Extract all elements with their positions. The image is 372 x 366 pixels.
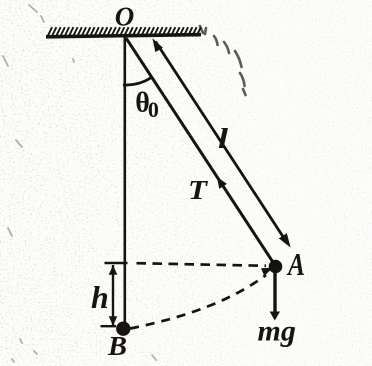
tension arrowhead T on string xyxy=(217,177,227,189)
dashed horizontal level line to A xyxy=(137,263,267,266)
bob position A dot xyxy=(269,260,283,274)
svg-text:O: O xyxy=(115,2,135,32)
weight arrowhead xyxy=(270,312,280,321)
scan smudges top-left and edges xyxy=(3,5,156,362)
svg-text:mg: mg xyxy=(258,315,296,348)
ceiling line xyxy=(46,35,201,37)
svg-text:A: A xyxy=(286,246,305,282)
length double-arrow l shaft xyxy=(156,42,288,244)
vertical reference line O-B xyxy=(124,37,127,325)
length arrowhead bottom xyxy=(279,233,291,247)
height arrowhead bottom xyxy=(109,316,118,326)
svg-text:T: T xyxy=(188,175,209,205)
bottom tick at B level xyxy=(101,325,117,327)
swing arc arrowhead at A xyxy=(261,268,273,276)
scan smudge streaks upper right xyxy=(200,26,246,95)
length arrowhead top xyxy=(152,38,163,52)
pendulum string O-A xyxy=(126,38,275,265)
svg-text:B: B xyxy=(107,331,127,361)
height arrowhead top xyxy=(109,265,118,275)
angle arc theta0 xyxy=(123,77,152,85)
height double-arrow h shaft xyxy=(112,265,114,325)
level tick at top of h xyxy=(105,262,128,265)
ceiling hatching xyxy=(48,27,201,36)
dashed swing arc B to A xyxy=(130,275,266,329)
bob position B dot xyxy=(116,322,130,336)
weight arrow mg xyxy=(273,272,276,313)
svg-text:l: l xyxy=(218,123,229,155)
svg-text:h: h xyxy=(91,279,109,315)
